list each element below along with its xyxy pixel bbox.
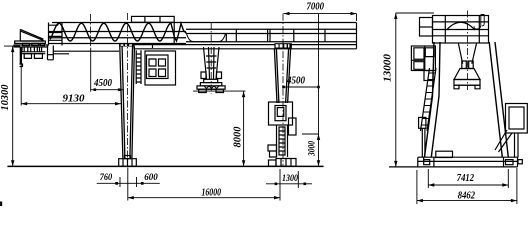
svg-text:16000: 16000 xyxy=(202,187,222,198)
svg-text:7000: 7000 xyxy=(307,2,325,13)
svg-text:13000: 13000 xyxy=(383,53,394,82)
svg-text:8462: 8462 xyxy=(458,191,476,202)
svg-text:760: 760 xyxy=(100,172,113,182)
svg-text:9130: 9130 xyxy=(63,93,86,104)
svg-text:600: 600 xyxy=(144,172,158,182)
svg-text:7412: 7412 xyxy=(457,173,475,184)
svg-text:4500: 4500 xyxy=(93,78,113,89)
svg-text:3000: 3000 xyxy=(307,141,317,157)
svg-text:10300: 10300 xyxy=(0,84,11,111)
svg-text:8000: 8000 xyxy=(233,126,244,148)
svg-text:4500: 4500 xyxy=(286,75,306,86)
svg-text:1300: 1300 xyxy=(282,173,298,183)
